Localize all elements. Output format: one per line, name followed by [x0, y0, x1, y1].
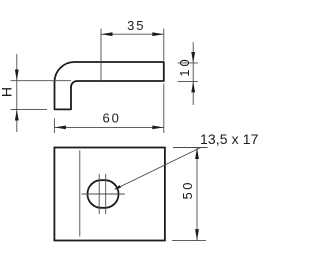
dim 60 arrow left: [55, 126, 66, 130]
dim 35 left extension line: [100, 29, 102, 63]
dim 50 bottom extension line: [172, 240, 206, 242]
slot center line vertical right: [105, 174, 107, 214]
dim 35 dimension line: [101, 33, 164, 35]
slot center line vertical left: [98, 174, 100, 214]
dim 10 arrow top (down): [191, 52, 195, 63]
dim H top extension line: [11, 80, 72, 82]
dim 35 arrow left: [101, 32, 112, 36]
dim H arrow bottom (up): [15, 110, 19, 121]
dim 60 dimension line: [54, 126, 163, 128]
svg-text:10: 10: [177, 56, 192, 76]
dim 50 top extension line: [173, 147, 208, 149]
svg-text:H: H: [0, 87, 14, 97]
dim 60 right extension line: [163, 84, 165, 134]
svg-text:35: 35: [127, 18, 145, 33]
dim 10 dimension line: [192, 42, 194, 105]
svg-text:13,5 x 17: 13,5 x 17: [200, 131, 259, 147]
plate outline (front view): [54, 148, 164, 241]
dim 50 arrow bottom (down): [195, 229, 199, 240]
dim 60 left extension line: [53, 118, 55, 133]
svg-text:50: 50: [180, 180, 195, 199]
dim H dimension line: [16, 54, 18, 132]
dim 50 arrow top (up): [195, 148, 199, 159]
dim 10 top extension line: [178, 62, 198, 64]
bend tangent line on arm: [100, 62, 102, 81]
fold edge line in plate: [79, 151, 81, 237]
dim 35 right extension line: [163, 29, 165, 61]
dim 60 arrow right: [152, 126, 163, 130]
slot hole 13.5 x 17: [88, 180, 119, 208]
leader line to slot: [115, 148, 201, 190]
dim 10 bottom extension line: [178, 80, 198, 82]
dim 50 dimension line: [196, 148, 198, 241]
dim H bottom extension line: [11, 108, 48, 110]
dim H arrow top (down): [15, 70, 19, 81]
slot center line horizontal: [82, 193, 125, 195]
dim 10 arrow bottom (up): [191, 82, 195, 93]
leader arrowhead: [114, 185, 121, 189]
dim 35 arrow right: [152, 32, 163, 36]
bracket outline (side view): [55, 62, 164, 109]
svg-text:60: 60: [102, 110, 120, 125]
